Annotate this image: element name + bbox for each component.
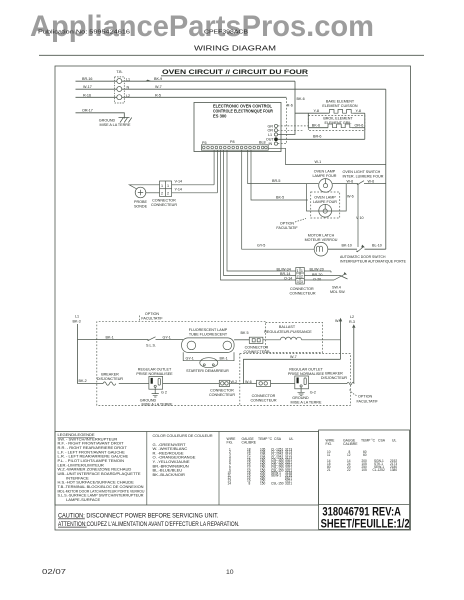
svg-text:3321: 3321 [285,481,292,485]
svg-text:WIRING DIAGRAM: WIRING DIAGRAM [194,44,276,53]
svg-text:V 10: V 10 [356,216,364,220]
svg-text:W-7: W-7 [155,85,162,89]
svg-text:OVEN LAMP: OVEN LAMP [314,169,336,173]
svg-text:3: 3 [301,280,303,284]
svg-text:OPTION: OPTION [358,395,372,399]
switch S.L.S. [146,337,156,348]
svg-text:SHEET/FEUILLE:1/2: SHEET/FEUILLE:1/2 [321,517,410,531]
wire strip drop BL/W-34 [227,150,296,271]
automatic door switch [340,245,406,264]
svg-text:CALIBRE: CALIBRE [343,442,358,446]
wire R-6 dashed [278,97,293,143]
svg-text:FACULTATIF: FACULTATIF [357,400,379,404]
svg-text:ES 300: ES 300 [213,113,227,118]
wire O-20 [304,278,334,282]
svg-text:R-5: R-5 [155,93,161,97]
svg-text:LAMPE-SURFACE: LAMPE-SURFACE [66,497,100,502]
wire BK-5 label [276,195,354,200]
svg-text:S.L.S.: S.L.S. [146,344,156,348]
wire strip drop O-14 [221,150,296,280]
svg-text:DISJONCTEUR: DISJONCTEUR [321,376,348,380]
svg-text:1: 1 [297,269,299,273]
wire strip drop BR-14 [224,150,296,275]
svg-text:TEMP °C: TEMP °C [258,437,273,441]
svg-text:FACULTATIF: FACULTATIF [276,226,298,230]
wire gauge table middle [227,437,294,485]
svg-text:W-6: W-6 [347,180,354,184]
wire BK-5 tube to connector [234,331,249,340]
regular outlet 2 label [288,368,325,377]
svg-text:BK-3: BK-3 [73,320,81,324]
svg-text:CALIBRE: CALIBRE [242,441,257,445]
probe sonde [134,187,148,208]
svg-text:CSA: CSA [274,437,282,441]
svg-text:10: 10 [226,569,234,576]
svg-text:FIG.: FIG. [227,441,234,445]
wire strip right to lamp feed [268,148,386,164]
svg-text:LAMPE FOUR: LAMPE FOUR [313,200,337,204]
resistor broil element [308,124,365,128]
part number box [319,430,410,529]
svg-text:CONNECTOR: CONNECTOR [245,346,269,350]
broil element label [323,117,353,126]
ground outlet 1 [140,387,173,406]
op-amp U1 electronic oven control ES 300 [194,103,281,152]
option dashed box outlet2 [240,354,351,406]
svg-text:SEW-1: SEW-1 [271,474,281,478]
pin GR [268,124,278,128]
svg-text:OUT: OUT [266,138,275,142]
svg-text:CPEF398ACB: CPEF398ACB [204,30,248,36]
svg-text:150: 150 [260,481,266,485]
svg-text:DISJONCTEUR: DISJONCTEUR [97,377,124,381]
svg-text:BR-6: BR-6 [313,134,321,138]
fluorescent tube [182,338,235,353]
oven light switch [343,170,384,185]
ground chassis [99,118,132,128]
wire outlet1 to connector1 [163,383,220,385]
connector door latch 3x2 [290,268,316,296]
wire strip drop BK-5 [251,150,308,200]
svg-text:W-6: W-6 [245,380,252,384]
svg-text:BK-9: BK-9 [154,77,162,81]
svg-text:CAUTION: DISCONNECT POWER BEFO: CAUTION: DISCONNECT POWER BEFORE SERVICI… [58,513,219,520]
wire BL-10 [365,244,386,250]
svg-text:P5: P5 [202,141,207,145]
svg-text:CONNECTOR: CONNECTOR [210,389,234,393]
wire L1 riser [77,324,79,384]
wire W-7 lower run [244,355,341,384]
svg-text:PRISE NORMALISEE: PRISE NORMALISEE [136,372,173,376]
motor latch label [305,234,338,243]
svg-text:3: 3 [297,280,299,284]
svg-text:AppliancePartsPros.com: AppliancePartsPros.com [30,10,374,43]
svg-text:MISE A LA TERRE: MISE A LA TERRE [100,123,131,127]
svg-text:V-14: V-14 [175,180,183,184]
wire strip drop BR-5 [248,150,319,183]
broil option dashed box [308,116,365,131]
svg-text:BAKE ELEMENT: BAKE ELEMENT [326,100,355,104]
fluorescent lamp label [189,328,228,337]
svg-text:R-3: R-3 [349,320,355,324]
breaker disjoncteur right [309,372,355,386]
svg-text:OVEN CIRCUIT // CIRCUIT DU FOU: OVEN CIRCUIT // CIRCUIT DU FOUR [162,69,309,76]
svg-text:ATTENTION:COUPEZ L'ALIMENTATIO: ATTENTION:COUPEZ L'ALIMENTATION AVANT D'… [58,521,240,528]
wire BR-16 [76,77,117,81]
svg-text:60: 60 [363,453,367,457]
connector ballast 2 pin [243,337,269,354]
connector probe 2x2 [151,181,177,207]
svg-text:CONNECTEUR: CONNECTEUR [290,292,316,296]
svg-text:IN: IN [269,142,273,146]
svg-text:CSA: CSA [378,439,386,443]
svg-text:OPTION: OPTION [145,312,159,316]
svg-text:UL: UL [392,439,396,443]
svg-text:MOTEUR VERROU: MOTEUR VERROU [305,238,338,242]
wire gauge table right [326,439,398,473]
svg-text:21: 21 [327,468,331,472]
wire Y-14 [172,187,218,193]
svg-text:TUBE FLUORESCENT: TUBE FLUORESCENT [189,333,228,337]
connector 1 lower [209,380,235,397]
svg-text:COLOR COULEURS DE COULEUR: COLOR COULEURS DE COULEUR [153,433,213,438]
wire R-16 [76,93,117,97]
svg-text:2: 2 [161,192,163,196]
svg-text:BK-2: BK-2 [79,379,87,383]
svg-text:GY-1: GY-1 [186,356,194,360]
svg-text:FLUORESCENT LAMP: FLUORESCENT LAMP [189,328,228,332]
lamp oven lamp 1 [319,179,333,193]
svg-text:BL-10: BL-10 [372,244,382,248]
svg-text:CONNECTOR: CONNECTOR [152,199,176,203]
wire W-17 [76,85,117,89]
svg-text:Y-14: Y-14 [175,187,182,191]
svg-text:OR-6: OR-6 [355,124,364,128]
node W-7 ballast [335,318,342,360]
wire BK-10 [328,244,357,250]
svg-text:BK-1: BK-1 [220,356,228,360]
wire element right bus [364,113,366,139]
wire probe bottom [146,192,160,194]
svg-text:MISE A LA TERRE: MISE A LA TERRE [291,401,322,405]
wire BK-9 [122,77,295,81]
svg-text:FACULTATIF: FACULTATIF [141,316,163,320]
svg-text:BREAKER: BREAKER [101,373,119,377]
diagram frame [55,66,411,530]
pin L1 [268,133,278,137]
outlet 2 [295,376,309,389]
node L2 R-3 [349,315,356,384]
svg-text:MISE A LA TERRE: MISE A LA TERRE [142,402,173,406]
svg-text:BK-10: BK-10 [342,244,352,248]
svg-text:REGULAR OUTLET: REGULAR OUTLET [289,368,323,372]
starter demarreur [186,358,229,374]
option facultatif label lamp2 [276,219,306,231]
bake element label [322,100,358,109]
svg-text:CONNECTEUR: CONNECTEUR [209,393,235,397]
svg-text:SW.4: SW.4 [332,286,341,290]
svg-text:TEMP °C: TEMP °C [361,439,376,443]
section title OVEN CIRCUIT [161,69,309,76]
ground outlet 2 [291,387,322,405]
svg-text:SONDE: SONDE [134,205,148,209]
wire BK-1 [78,335,149,339]
wire strip drop GY-5 [242,150,314,249]
ballast box dashed [264,323,322,353]
svg-text:MOTOR LATCH: MOTOR LATCH [308,234,335,238]
svg-text:2: 2 [297,275,299,279]
motor M latch [314,242,328,256]
svg-text:GROUND: GROUND [292,396,309,400]
svg-text:11: 11 [327,453,331,457]
inductor ballast coil [263,337,341,340]
caution text [58,513,240,528]
svg-text:CONNECTEUR: CONNECTEUR [250,399,276,403]
svg-text:MDL SW.: MDL SW. [330,290,345,294]
svg-text:Y-8: Y-8 [356,109,361,113]
node L1 lower [73,315,81,324]
svg-text:BL/W-34: BL/W-34 [277,267,291,271]
wire BR-20 [304,273,340,277]
svg-text:CONNECTEUR: CONNECTEUR [243,350,269,354]
svg-text:02/07: 02/07 [42,569,66,576]
wire starter frame [183,352,234,361]
svg-text:P8: P8 [230,140,235,144]
wire pin OR dashed [278,129,303,131]
svg-text:BK.-BLACK/NOIR: BK.-BLACK/NOIR [153,472,185,477]
svg-text:CSL-150: CSL-150 [271,481,284,485]
oven lamp 1 label [313,169,337,178]
svg-text:L1: L1 [126,77,130,81]
wire strip to probe V-14 [213,150,215,185]
connector strip P5 P8 [201,140,268,150]
pin OR [268,129,278,133]
svg-text:W-2: W-2 [231,380,238,384]
option lamp2 dashed box [311,192,340,218]
svg-text:22: 22 [347,468,351,472]
svg-text:BALLAST: BALLAST [279,325,296,329]
svg-text:BR-20: BR-20 [312,273,322,277]
svg-text:W-1: W-1 [315,160,322,164]
pin IN [269,142,278,146]
svg-text:BR-16: BR-16 [82,77,92,81]
svg-text:BR-14: BR-14 [280,272,290,276]
svg-text:BREAKER: BREAKER [325,372,343,376]
svg-text:12: 12 [347,453,351,457]
svg-text:OVEN LAMP: OVEN LAMP [314,195,336,199]
outlet 1 [149,376,163,389]
svg-text:W-7: W-7 [290,355,297,359]
svg-text:CONNECTOR: CONNECTOR [252,394,276,398]
oven lamp 2 label [313,195,337,204]
svg-text:BK-1: BK-1 [106,335,114,339]
svg-text:ELEMENT GRIL: ELEMENT GRIL [325,121,352,125]
svg-text:1: 1 [167,184,169,188]
svg-text:FIG.: FIG. [326,442,333,446]
svg-text:L1: L1 [268,133,272,137]
svg-text:LAMPE FOUR: LAMPE FOUR [313,174,337,178]
svg-text:G 2: G 2 [161,391,167,395]
resistor bake element [295,109,365,113]
svg-text:R-16: R-16 [83,93,91,97]
svg-text:BL8: BL8 [259,140,266,144]
wire switch to neutral W-6 [364,180,386,184]
svg-text:OR-17: OR-17 [82,108,93,112]
svg-text:R-6: R-6 [287,104,293,108]
svg-text:GY-1: GY-1 [163,335,171,339]
breaker disjoncteur left [97,373,149,386]
wire connector2 to outlet2 [271,383,295,385]
svg-text:AUTOMATIC DOOR SWITCH: AUTOMATIC DOOR SWITCH [340,255,386,259]
wire BR-6 element return [278,134,365,139]
svg-text:REGULAR OUTLET: REGULAR OUTLET [138,368,172,372]
svg-text:L2: L2 [350,315,354,319]
wire BK-2 [78,379,104,384]
svg-text:8: 8 [249,481,251,485]
svg-text:BK-5: BK-5 [276,196,284,200]
svg-text:OVEN LIGHT SWITCH: OVEN LIGHT SWITCH [343,170,381,174]
legend text column [58,432,145,502]
wire pin GR dashed [278,125,309,127]
svg-text:2: 2 [167,192,169,196]
svg-text:OPTION: OPTION [280,222,294,226]
wire strip to probe Y-14 [216,150,218,193]
option facultatif label bottom right [350,390,379,404]
svg-text:W-6: W-6 [368,180,375,184]
color legend column [153,433,213,477]
svg-text:REGULATEUR-PUISSANCE: REGULATEUR-PUISSANCE [264,330,312,334]
svg-text:GROUND: GROUND [99,119,116,123]
svg-text:INTERRUPTEUR AUTOMATIQUE PORTE: INTERRUPTEUR AUTOMATIQUE PORTE [340,260,406,264]
svg-text:PRISE NORMALISEE: PRISE NORMALISEE [288,372,325,376]
svg-text:STARTER/ DEMARREUR: STARTER/ DEMARREUR [186,369,229,373]
svg-text:L1: L1 [75,315,79,319]
wire W-7 [122,85,386,89]
svg-text:UL: UL [289,437,293,441]
svg-text:14: 14 [228,481,232,485]
option facultatif label top [140,312,164,322]
lamp oven lamp 2 [319,204,332,217]
regular outlet 1 label [136,368,173,377]
svg-text:W-17: W-17 [83,85,92,89]
svg-text:105: 105 [362,468,368,472]
svg-text:1: 1 [161,184,163,188]
svg-text:2: 2 [301,275,303,279]
svg-text:1: 1 [301,269,303,273]
wire W-2 [230,380,257,384]
wire V-10 [356,184,364,247]
legend box [55,432,319,506]
wire GY-1 [156,335,184,339]
svg-text:1380: 1380 [390,468,397,472]
svg-text:G-2: G-2 [310,390,316,394]
svg-text:BK-6: BK-6 [297,97,305,101]
pin OUT [266,137,278,141]
svg-text:ELEMENT CUISSON: ELEMENT CUISSON [322,104,358,108]
connector 2 lower [250,380,276,402]
header rule [39,54,424,56]
wire lamp1 to switch W-6 [333,180,358,184]
svg-text:BROIL ELEMENT: BROIL ELEMENT [323,117,353,121]
svg-text:BK-6: BK-6 [312,124,320,128]
svg-text:CL-1252: CL-1252 [373,468,385,472]
svg-text:Y-8: Y-8 [314,109,319,113]
svg-text:GY-5: GY-5 [257,244,265,248]
wire probe top [129,185,159,189]
svg-text:BK 5: BK 5 [241,331,249,335]
switch MDL [330,271,348,294]
svg-text:Publication No: 5995424616: Publication No: 5995424616 [38,30,130,36]
svg-text:T.B.: T.B. [116,70,122,74]
option dashed box main [97,322,351,406]
svg-text:CONNECTOR: CONNECTOR [290,287,314,291]
neutral riser wire [385,89,387,249]
svg-text:CONNECTEUR: CONNECTEUR [151,203,177,207]
wire L1 feed BK-6 [278,81,305,134]
wire BL/W-20 [304,267,331,271]
svg-text:INTER. LUMIERE FOUR: INTER. LUMIERE FOUR [343,175,384,179]
wire R-5 [122,93,287,97]
wire V-14 [172,180,215,185]
wire lamp2 parallel loop [307,184,347,211]
terminal block T.B. [115,70,125,103]
wire element left bus [307,113,309,128]
svg-text:BR-5: BR-5 [272,179,280,183]
svg-text:O-14: O-14 [284,276,292,280]
wire OR-17 [76,108,125,118]
svg-text:PROBE: PROBE [134,200,147,204]
svg-text:W-6: W-6 [347,195,354,199]
